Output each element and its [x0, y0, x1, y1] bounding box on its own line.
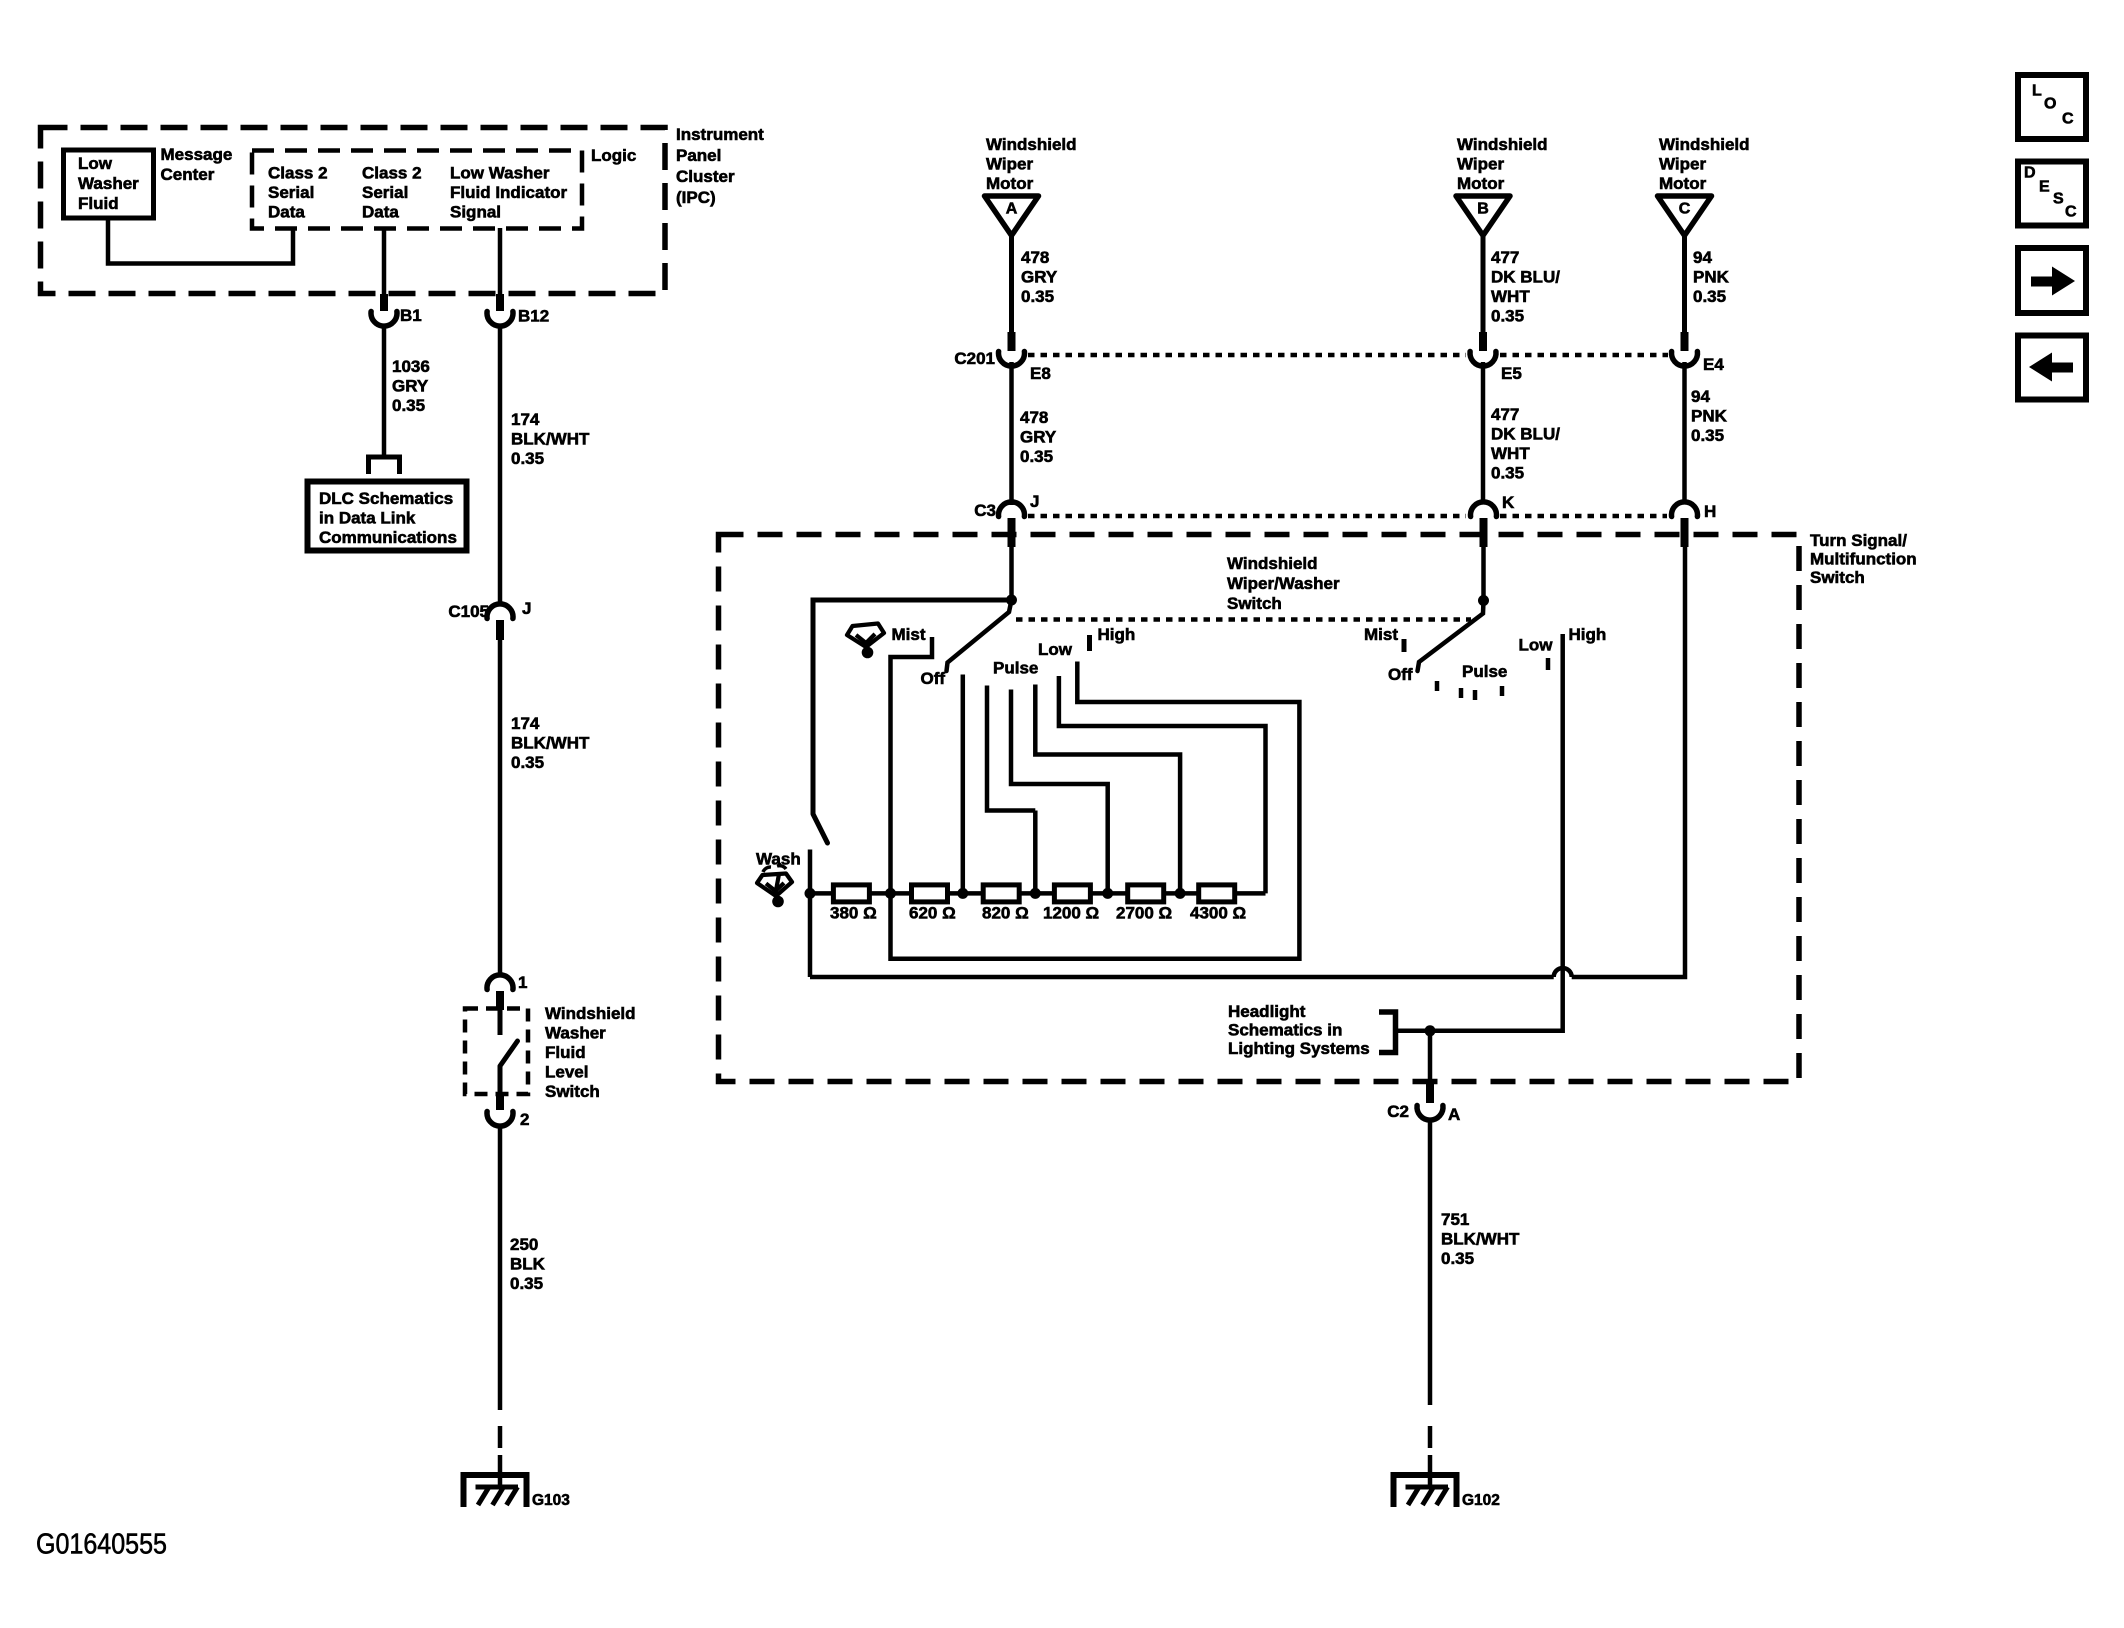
wire bracket into DLC box — [369, 457, 400, 474]
svg-text:Lighting Systems: Lighting Systems — [1228, 1039, 1370, 1058]
svg-text:94: 94 — [1693, 248, 1712, 267]
mist wiper icon (left) — [847, 624, 884, 659]
DLC Schematics in Data Link Communications box — [308, 482, 467, 551]
junction node pulse2 — [1102, 888, 1113, 899]
svg-text:0.35: 0.35 — [511, 753, 544, 772]
svg-text:GRY: GRY — [392, 377, 429, 396]
mist contact wire to resistor ladder — [891, 637, 933, 893]
wire dash to ground — [498, 1426, 503, 1448]
wire: class 2 serial data to B1 — [382, 228, 387, 296]
svg-text:G01640555: G01640555 — [36, 1529, 167, 1561]
svg-text:Switch: Switch — [1227, 594, 1282, 613]
svg-text:0.35: 0.35 — [1691, 426, 1724, 445]
svg-text:820 Ω: 820 Ω — [982, 904, 1029, 923]
svg-text:D: D — [2024, 165, 2036, 182]
svg-text:Pulse: Pulse — [993, 659, 1038, 678]
ground G103 — [498, 1455, 503, 1487]
connector C105 J — [487, 604, 513, 619]
svg-text:Motor: Motor — [986, 174, 1034, 193]
connector C3 J — [999, 502, 1025, 517]
svg-text:174: 174 — [511, 714, 540, 733]
junction node headlight/C2 — [1425, 1025, 1436, 1036]
resistor 4300 ohm — [1199, 885, 1235, 902]
pulse contact wire 3 — [1035, 685, 1180, 894]
wire from K into switch — [1481, 545, 1486, 600]
svg-text:in Data Link: in Data Link — [319, 509, 416, 528]
wiper switch rotor arm (right, pointing to Off) — [1418, 601, 1484, 672]
instrument panel cluster (IPC) dashed box — [41, 128, 666, 294]
svg-text:Wiper: Wiper — [1659, 155, 1706, 174]
svg-text:E: E — [2039, 179, 2050, 196]
low contact wire — [1059, 676, 1266, 893]
pulse contact wire 2 — [1011, 690, 1108, 894]
svg-text:E4: E4 — [1703, 355, 1724, 374]
svg-text:Class 2: Class 2 — [362, 164, 422, 183]
LOC icon — [2018, 75, 2086, 139]
svg-text:C2: C2 — [1387, 1102, 1409, 1121]
wire 478 GRY 0.35 (motor A upper) — [1009, 235, 1014, 334]
resistor 2700 ohm — [1128, 885, 1164, 902]
high contact wire (right) down to headlight junction — [1430, 634, 1563, 1031]
svg-text:J: J — [522, 599, 531, 618]
svg-text:C201: C201 — [954, 349, 995, 368]
wire 1036 GRY 0.35 — [382, 325, 387, 456]
wire 250 BLK 0.35 — [498, 1126, 503, 1410]
svg-text:Message: Message — [161, 145, 233, 164]
svg-text:Windshield: Windshield — [1457, 135, 1548, 154]
svg-text:0.35: 0.35 — [1020, 447, 1053, 466]
svg-text:0.35: 0.35 — [1491, 464, 1524, 483]
wire from C3 into switch — [1009, 545, 1014, 600]
svg-text:380 Ω: 380 Ω — [830, 904, 877, 923]
svg-text:K: K — [1502, 493, 1515, 512]
svg-text:DK BLU/: DK BLU/ — [1491, 268, 1560, 287]
windshield washer fluid level switch dashed box — [465, 1009, 528, 1095]
svg-text:(IPC): (IPC) — [676, 188, 716, 207]
svg-text:C: C — [2065, 204, 2077, 221]
svg-text:BLK/WHT: BLK/WHT — [511, 430, 590, 449]
wiper switch top bus wire — [813, 598, 1012, 603]
svg-text:1200 Ω: 1200 Ω — [1043, 904, 1099, 923]
pulse position ticks (right) — [1435, 681, 1440, 691]
back arrow icon — [2018, 336, 2086, 400]
svg-text:Windshield: Windshield — [986, 135, 1077, 154]
wire 94 PNK 0.35 (motor C lower) — [1682, 362, 1687, 503]
svg-text:Turn Signal/: Turn Signal/ — [1810, 531, 1907, 550]
resistor ladder bus wire — [810, 891, 1266, 896]
fluid level switch contacts and arm — [498, 1010, 503, 1035]
turn signal/multifunction switch dashed box — [719, 535, 1800, 1082]
svg-text:WHT: WHT — [1491, 287, 1530, 306]
wire dash to ground G102 — [1428, 1426, 1433, 1448]
svg-text:Wiper: Wiper — [1457, 155, 1504, 174]
svg-text:E5: E5 — [1501, 364, 1522, 383]
svg-text:Mist: Mist — [1364, 625, 1398, 644]
svg-text:Multifunction: Multifunction — [1810, 550, 1917, 569]
connector B12 — [496, 294, 504, 311]
logic dashed box — [252, 151, 582, 229]
svg-text:C: C — [2062, 111, 2074, 128]
svg-text:Windshield: Windshield — [1659, 135, 1750, 154]
svg-text:4300 Ω: 4300 Ω — [1190, 904, 1246, 923]
svg-text:BLK/WHT: BLK/WHT — [1441, 1230, 1520, 1249]
svg-text:GRY: GRY — [1021, 268, 1058, 287]
junction node at wiper switch (left) — [1006, 595, 1017, 606]
svg-text:C: C — [1679, 201, 1691, 218]
svg-text:PNK: PNK — [1691, 407, 1728, 426]
svg-text:GRY: GRY — [1020, 428, 1057, 447]
svg-text:Fluid Indicator: Fluid Indicator — [450, 183, 567, 202]
wire 477 DK BLU/WHT 0.35 (motor B lower) — [1481, 362, 1486, 503]
wiper switch left feed wire down to wash contact — [811, 598, 816, 815]
connector K — [1471, 502, 1497, 517]
connector C2 A — [1426, 1082, 1434, 1103]
junction node at wiper switch (right) — [1478, 595, 1489, 606]
svg-text:O: O — [2044, 96, 2056, 113]
svg-text:B1: B1 — [400, 306, 422, 325]
ground G102 — [1428, 1455, 1433, 1487]
windshield wiper motor A triangle — [985, 196, 1039, 236]
resistor 820 ohm — [983, 885, 1019, 902]
wire: message center to class 2 serial data — [108, 218, 293, 264]
wire 94 PNK 0.35 (motor C upper) — [1682, 235, 1687, 334]
wash switch arm — [813, 814, 828, 843]
svg-text:Headlight: Headlight — [1228, 1002, 1306, 1021]
high position tick (left) — [1087, 635, 1092, 651]
connector E4 — [1672, 352, 1698, 367]
wash output wire to connector H (with hop over high wire) — [810, 975, 1554, 980]
low position tick (right) — [1546, 658, 1551, 670]
mist position tick (right) — [1402, 639, 1407, 652]
junction node pulse1 — [1030, 888, 1041, 899]
wire 477 DK BLU/WHT 0.35 (motor B upper) — [1481, 235, 1486, 334]
svg-text:0.35: 0.35 — [392, 396, 425, 415]
connector E5 — [1470, 352, 1496, 367]
svg-text:Low: Low — [78, 154, 113, 173]
DESC icon — [2018, 162, 2086, 226]
junction node mist — [885, 888, 896, 899]
svg-text:G103: G103 — [532, 1492, 570, 1509]
svg-text:DLC Schematics: DLC Schematics — [319, 489, 453, 508]
svg-text:Cluster: Cluster — [676, 167, 735, 186]
svg-text:C105: C105 — [448, 602, 489, 621]
svg-text:J: J — [1030, 492, 1039, 511]
svg-text:Wiper/Washer: Wiper/Washer — [1227, 574, 1340, 593]
svg-text:BLK/WHT: BLK/WHT — [511, 734, 590, 753]
connector 1 (washer fluid level switch) — [487, 975, 513, 990]
wiper switch internal dotted boundary — [1016, 617, 1471, 622]
svg-text:174: 174 — [511, 410, 540, 429]
next arrow icon — [2018, 248, 2086, 313]
svg-text:250: 250 — [510, 1235, 538, 1254]
svg-text:B12: B12 — [518, 307, 549, 326]
svg-text:0.35: 0.35 — [1491, 307, 1524, 326]
svg-text:High: High — [1569, 625, 1607, 644]
message center box: Low Washer Fluid — [64, 150, 154, 218]
svg-text:0.35: 0.35 — [1693, 287, 1726, 306]
svg-text:PNK: PNK — [1693, 268, 1730, 287]
svg-text:Center: Center — [161, 165, 215, 184]
svg-text:620 Ω: 620 Ω — [909, 904, 956, 923]
svg-text:Windshield: Windshield — [1227, 554, 1318, 573]
svg-text:H: H — [1704, 502, 1716, 521]
svg-text:Panel: Panel — [676, 146, 721, 165]
svg-text:B: B — [1477, 201, 1489, 218]
svg-text:Data: Data — [268, 203, 305, 222]
connector C201 E8 — [999, 352, 1025, 367]
resistor 620 ohm — [912, 885, 948, 902]
svg-text:478: 478 — [1020, 408, 1048, 427]
connector H — [1672, 502, 1698, 517]
svg-text:E8: E8 — [1030, 364, 1051, 383]
svg-text:Washer: Washer — [545, 1024, 606, 1043]
svg-text:Off: Off — [921, 669, 946, 688]
svg-text:0.35: 0.35 — [1021, 287, 1054, 306]
svg-text:Pulse: Pulse — [1462, 662, 1507, 681]
svg-text:Windshield: Windshield — [545, 1004, 636, 1023]
svg-text:Data: Data — [362, 203, 399, 222]
svg-text:A: A — [1006, 201, 1018, 218]
svg-text:Instrument: Instrument — [676, 125, 764, 144]
svg-text:L: L — [2032, 83, 2042, 100]
svg-text:Off: Off — [1388, 665, 1413, 684]
svg-text:High: High — [1098, 625, 1136, 644]
wash contact wire — [808, 850, 813, 978]
svg-text:Low Washer: Low Washer — [450, 164, 550, 183]
svg-text:Serial: Serial — [268, 183, 314, 202]
svg-text:0.35: 0.35 — [510, 1274, 543, 1293]
svg-text:Switch: Switch — [545, 1082, 600, 1101]
svg-text:477: 477 — [1491, 248, 1519, 267]
svg-text:S: S — [2053, 191, 2064, 208]
svg-text:C3: C3 — [974, 501, 996, 520]
off contact wire — [961, 675, 966, 894]
svg-text:WHT: WHT — [1491, 444, 1530, 463]
svg-text:DK BLU/: DK BLU/ — [1491, 425, 1560, 444]
svg-text:Washer: Washer — [78, 174, 139, 193]
svg-text:Level: Level — [545, 1063, 588, 1082]
resistor 380 ohm — [833, 885, 869, 902]
wire 478 GRY 0.35 (motor A lower) — [1009, 362, 1014, 505]
wire 174 BLK/WHT 0.35 (lower) — [498, 640, 503, 973]
svg-text:Class 2: Class 2 — [268, 164, 328, 183]
svg-text:G102: G102 — [1462, 1492, 1500, 1509]
wire 174 BLK/WHT 0.35 (upper) — [498, 325, 503, 606]
svg-text:Motor: Motor — [1457, 174, 1505, 193]
junction node off — [957, 888, 968, 899]
svg-text:Motor: Motor — [1659, 174, 1707, 193]
inline connector dotted line C3-K-H — [1028, 514, 1466, 519]
inline connector dotted line C201-E5-E4 — [1028, 353, 1466, 358]
svg-text:1036: 1036 — [392, 357, 430, 376]
svg-text:1: 1 — [518, 973, 527, 992]
svg-text:0.35: 0.35 — [1441, 1249, 1474, 1268]
junction node wash/380 — [805, 888, 816, 899]
svg-text:Fluid: Fluid — [545, 1043, 586, 1062]
wire junction to C2 — [1428, 1031, 1433, 1082]
svg-text:Wiper: Wiper — [986, 155, 1033, 174]
svg-text:751: 751 — [1441, 1210, 1469, 1229]
svg-text:Mist: Mist — [892, 625, 926, 644]
svg-text:Signal: Signal — [450, 203, 501, 222]
svg-text:Serial: Serial — [362, 183, 408, 202]
svg-text:0.35: 0.35 — [511, 449, 544, 468]
svg-text:94: 94 — [1691, 387, 1710, 406]
wire: low washer fluid indicator signal to B12 — [498, 228, 503, 296]
svg-text:2700 Ω: 2700 Ω — [1116, 904, 1172, 923]
svg-text:Switch: Switch — [1810, 568, 1865, 587]
windshield wiper motor C triangle — [1658, 196, 1712, 236]
connector B1 — [380, 294, 388, 311]
svg-text:Communications: Communications — [319, 528, 457, 547]
svg-text:BLK: BLK — [510, 1255, 546, 1274]
resistor 1200 ohm — [1054, 885, 1090, 902]
pulse contact wire 1 — [987, 686, 1035, 811]
wash icon — [757, 866, 792, 908]
high contact wire (left) — [891, 662, 1300, 959]
svg-text:Logic: Logic — [591, 146, 636, 165]
windshield wiper motor B triangle — [1456, 196, 1510, 236]
svg-text:Low: Low — [1519, 636, 1554, 655]
wiper switch rotor arm (left, pointing to Off) — [947, 600, 1012, 671]
svg-text:477: 477 — [1491, 405, 1519, 424]
svg-text:Low: Low — [1038, 640, 1073, 659]
wire 751 BLK/WHT 0.35 — [1428, 1120, 1433, 1405]
connector 2 — [496, 1092, 504, 1110]
svg-text:Fluid: Fluid — [78, 194, 119, 213]
svg-text:A: A — [1448, 1105, 1460, 1124]
svg-text:2: 2 — [520, 1110, 529, 1129]
junction node pulse3 — [1175, 888, 1186, 899]
svg-text:Schematics in: Schematics in — [1228, 1021, 1342, 1040]
headlight schematics bracket — [1379, 1012, 1396, 1053]
svg-text:478: 478 — [1021, 248, 1049, 267]
